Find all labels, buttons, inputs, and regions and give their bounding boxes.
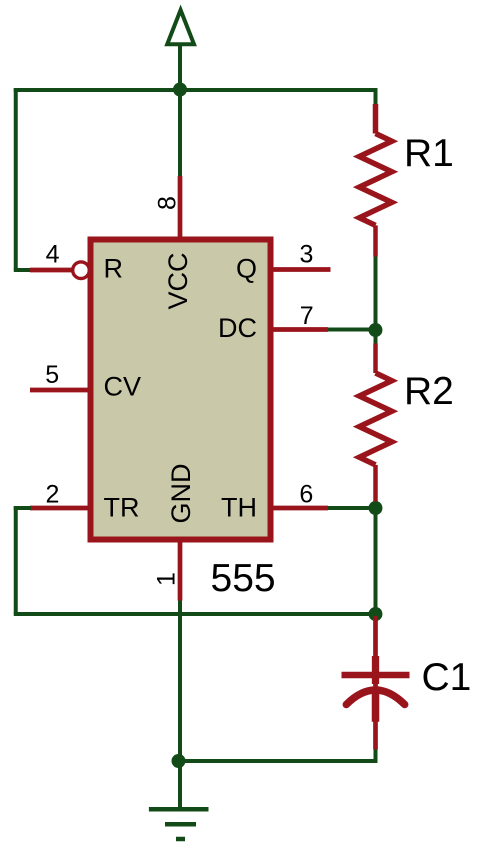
resistor R1 [359,104,392,257]
svg-text:CV: CV [104,372,142,402]
svg-text:R: R [104,254,124,284]
wire junction to R2 [374,330,378,344]
svg-text:R1: R1 [404,132,454,175]
pin 2 wire [30,506,88,511]
wire middle horizontal [14,612,376,616]
svg-text:4: 4 [46,241,60,269]
svg-text:DC: DC [218,313,257,343]
svg-text:GND: GND [166,464,196,524]
pin 5 wire [30,388,88,393]
wire pin7 to junction [328,328,376,332]
wire pin1 to ground [178,601,182,810]
pin 7 wire [272,327,328,332]
capacitor C1 [342,616,410,750]
svg-text:VCC: VCC [163,252,193,309]
pin 4 wire [30,268,72,273]
svg-text:Q: Q [236,254,257,284]
pin 6 wire [272,506,328,511]
wire right rail top of R1 [374,88,378,104]
svg-text:8: 8 [153,196,181,210]
wire C1 bottom corner [374,750,378,764]
wire junction6 down to C1 [374,508,378,614]
wire left vertical bottom [14,506,18,614]
wire R1 bottom to junction [374,257,378,331]
svg-text:C1: C1 [422,656,472,699]
wire top horizontal [14,88,378,92]
resistor R2 [359,344,392,502]
wire bottom horizontal [179,759,378,763]
svg-text:TH: TH [221,493,257,523]
pin 4 inversion bubble [73,262,90,279]
svg-text:3: 3 [300,241,314,269]
wire pin4 green stub [14,268,31,272]
svg-text:5: 5 [45,361,59,389]
svg-text:6: 6 [299,481,313,509]
junction dot C1 top [369,607,383,621]
svg-text:2: 2 [46,481,60,509]
wire pin2 green stub [14,506,31,510]
junction dot pin7 [369,323,383,337]
wire power stem [178,44,182,176]
pin 8 wire [178,176,183,237]
junction dot bottom [172,754,186,768]
wire pin6 to junction [328,506,376,510]
pin 1 wire [178,543,183,601]
svg-text:1: 1 [152,572,180,586]
pin 3 wire [272,267,331,272]
junction dot top [173,83,187,97]
svg-text:R2: R2 [404,370,454,413]
ground symbol [149,809,209,839]
svg-text:TR: TR [104,493,140,523]
wire left vertical top [14,88,18,270]
junction dot pin6 [369,501,383,515]
power terminal VCC arrow [167,10,194,44]
IC U1 555 body [91,240,271,540]
svg-text:7: 7 [300,302,314,330]
svg-text:555: 555 [211,557,276,600]
